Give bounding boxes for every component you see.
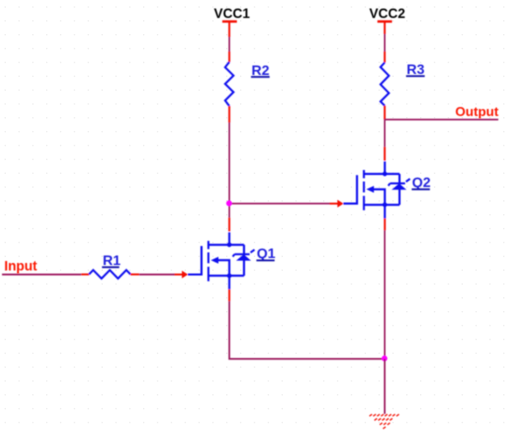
wire VCC1 to R2 (228, 37, 230, 52)
Q2 drain pin (384, 147, 386, 161)
Q1 source pin (228, 289, 230, 301)
wire output node to Q2 drain (384, 120, 386, 147)
svg-text:VCC2: VCC2 (369, 6, 405, 21)
svg-text:Input: Input (4, 258, 37, 273)
svg-text:R1: R1 (103, 252, 121, 268)
power symbol VCC2 (377, 20, 392, 34)
wire Q1 source to ground rail (229, 301, 384, 359)
ground node junction dot (382, 356, 388, 362)
label R1 (102, 252, 121, 268)
wire Q2 source to ground rail (384, 230, 386, 359)
wire R2 to node A (228, 123, 230, 202)
svg-text:R2: R2 (252, 62, 270, 78)
svg-text:VCC1: VCC1 (214, 6, 251, 21)
node A junction dot (226, 200, 232, 206)
label Q2 (412, 174, 431, 190)
Q2 source pin (384, 218, 386, 230)
wire VCC2 to R3 (384, 34, 386, 52)
label Q1 (256, 245, 275, 261)
svg-text:Output: Output (455, 104, 499, 119)
resistor R3 (381, 52, 389, 120)
Q1 drain pin (228, 218, 230, 232)
transistor Q2 (330, 161, 410, 218)
wire node A to Q1 drain (228, 204, 230, 218)
resistor R2 (225, 52, 233, 123)
label R3 (406, 61, 425, 77)
wire node A to Q2 gate (229, 203, 330, 205)
svg-text:Q2: Q2 (412, 174, 431, 190)
power symbol VCC1 (222, 20, 237, 37)
wire R1 to Q1 gate (139, 274, 174, 276)
wire output node (385, 119, 499, 121)
wire Input (2, 274, 81, 276)
ground (369, 414, 399, 429)
svg-text:R3: R3 (407, 61, 425, 77)
wire ground rail to ground (384, 359, 386, 414)
label R2 (251, 62, 270, 78)
transistor Q1 (174, 232, 254, 289)
svg-text:Q1: Q1 (257, 245, 276, 261)
resistor R1 (81, 270, 139, 279)
